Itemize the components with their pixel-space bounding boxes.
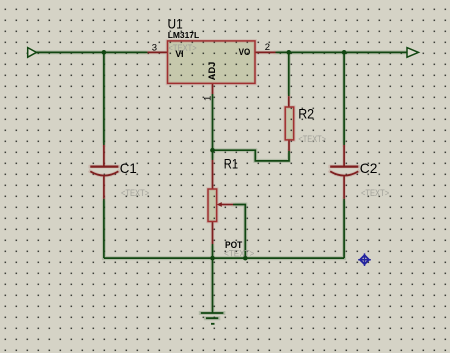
svg-text:<TEXT>: <TEXT> [224, 249, 255, 260]
wire input to U1 VI [36, 51, 147, 53]
capacitor C2 plates [330, 166, 358, 168]
pin R2 bottom [288, 140, 290, 151]
wire ADJ to node [212, 94, 214, 150]
pin C2 top [343, 145, 345, 167]
wire R2 bottom to ADJ node [213, 150, 290, 161]
resistor R2 body fill [285, 107, 294, 140]
svg-text:3: 3 [152, 42, 157, 53]
pin C2 bottom [343, 177, 345, 199]
wire ground stem [212, 258, 214, 313]
input terminal [28, 48, 37, 58]
svg-text:<TEXT>: <TEXT> [121, 188, 149, 198]
ground symbol [201, 313, 224, 324]
potentiometer R1 border [208, 189, 217, 222]
pin R1 bottom [212, 222, 214, 245]
wire C2 vertical top [343, 52, 345, 145]
svg-text:C2: C2 [360, 160, 378, 176]
svg-text:ADJ: ADJ [207, 62, 218, 81]
svg-text:R1: R1 [224, 155, 238, 171]
wire U1 VO to output terminal [276, 51, 408, 53]
pin U1 ADJ (1) [212, 83, 214, 94]
svg-text:VO: VO [239, 47, 251, 58]
wire halos [36, 41, 407, 318]
pin C1 bottom [103, 177, 105, 199]
capacitor C1 plates [90, 166, 118, 168]
svg-text:<TEXT>: <TEXT> [361, 188, 389, 198]
junction node at VO/C2 [342, 50, 347, 55]
svg-text:1: 1 [203, 96, 214, 101]
pin C1 top [103, 145, 105, 167]
pin R2 top [288, 96, 290, 107]
wire node to R1 top [212, 150, 214, 160]
junction node at VO/R2 [286, 50, 291, 55]
potentiometer R1 body fill [208, 189, 217, 222]
op-amp U1 box border [168, 41, 256, 84]
wire left vertical top (junction to C1) [103, 52, 105, 145]
op-amp U1 body fill [168, 41, 256, 84]
wire C2 bottom to rail [343, 199, 345, 258]
svg-text:2: 2 [265, 42, 270, 53]
wire left vertical bottom (C1 to bottom rail) [103, 199, 105, 258]
junction node at input/C1 [102, 50, 107, 55]
output terminal [407, 48, 418, 58]
resistor R2 border [285, 107, 294, 140]
pin R1 top [212, 160, 214, 189]
junction node R1 bottom/rail [210, 256, 215, 261]
origin marker (blue) [358, 253, 371, 266]
svg-text:<TEXT>: <TEXT> [298, 134, 326, 144]
junction node ADJ/R1 [210, 148, 215, 153]
svg-text:R2: R2 [298, 106, 314, 122]
wire junction to R2 top [288, 52, 290, 96]
junction node wiper/rail [243, 256, 248, 261]
pin U1 VI (3) [148, 51, 168, 53]
svg-text:C1: C1 [120, 160, 137, 176]
wire wiper to rail [233, 205, 245, 259]
pin R1 wiper with arrow [221, 204, 233, 206]
wire R1 bottom to rail [212, 244, 214, 258]
pin U1 VO (2) [255, 51, 276, 53]
svg-text:LM317L: LM317L [168, 30, 200, 40]
svg-text:U1: U1 [168, 15, 183, 31]
wire bottom rail [104, 257, 344, 259]
svg-text:VI: VI [175, 49, 183, 59]
